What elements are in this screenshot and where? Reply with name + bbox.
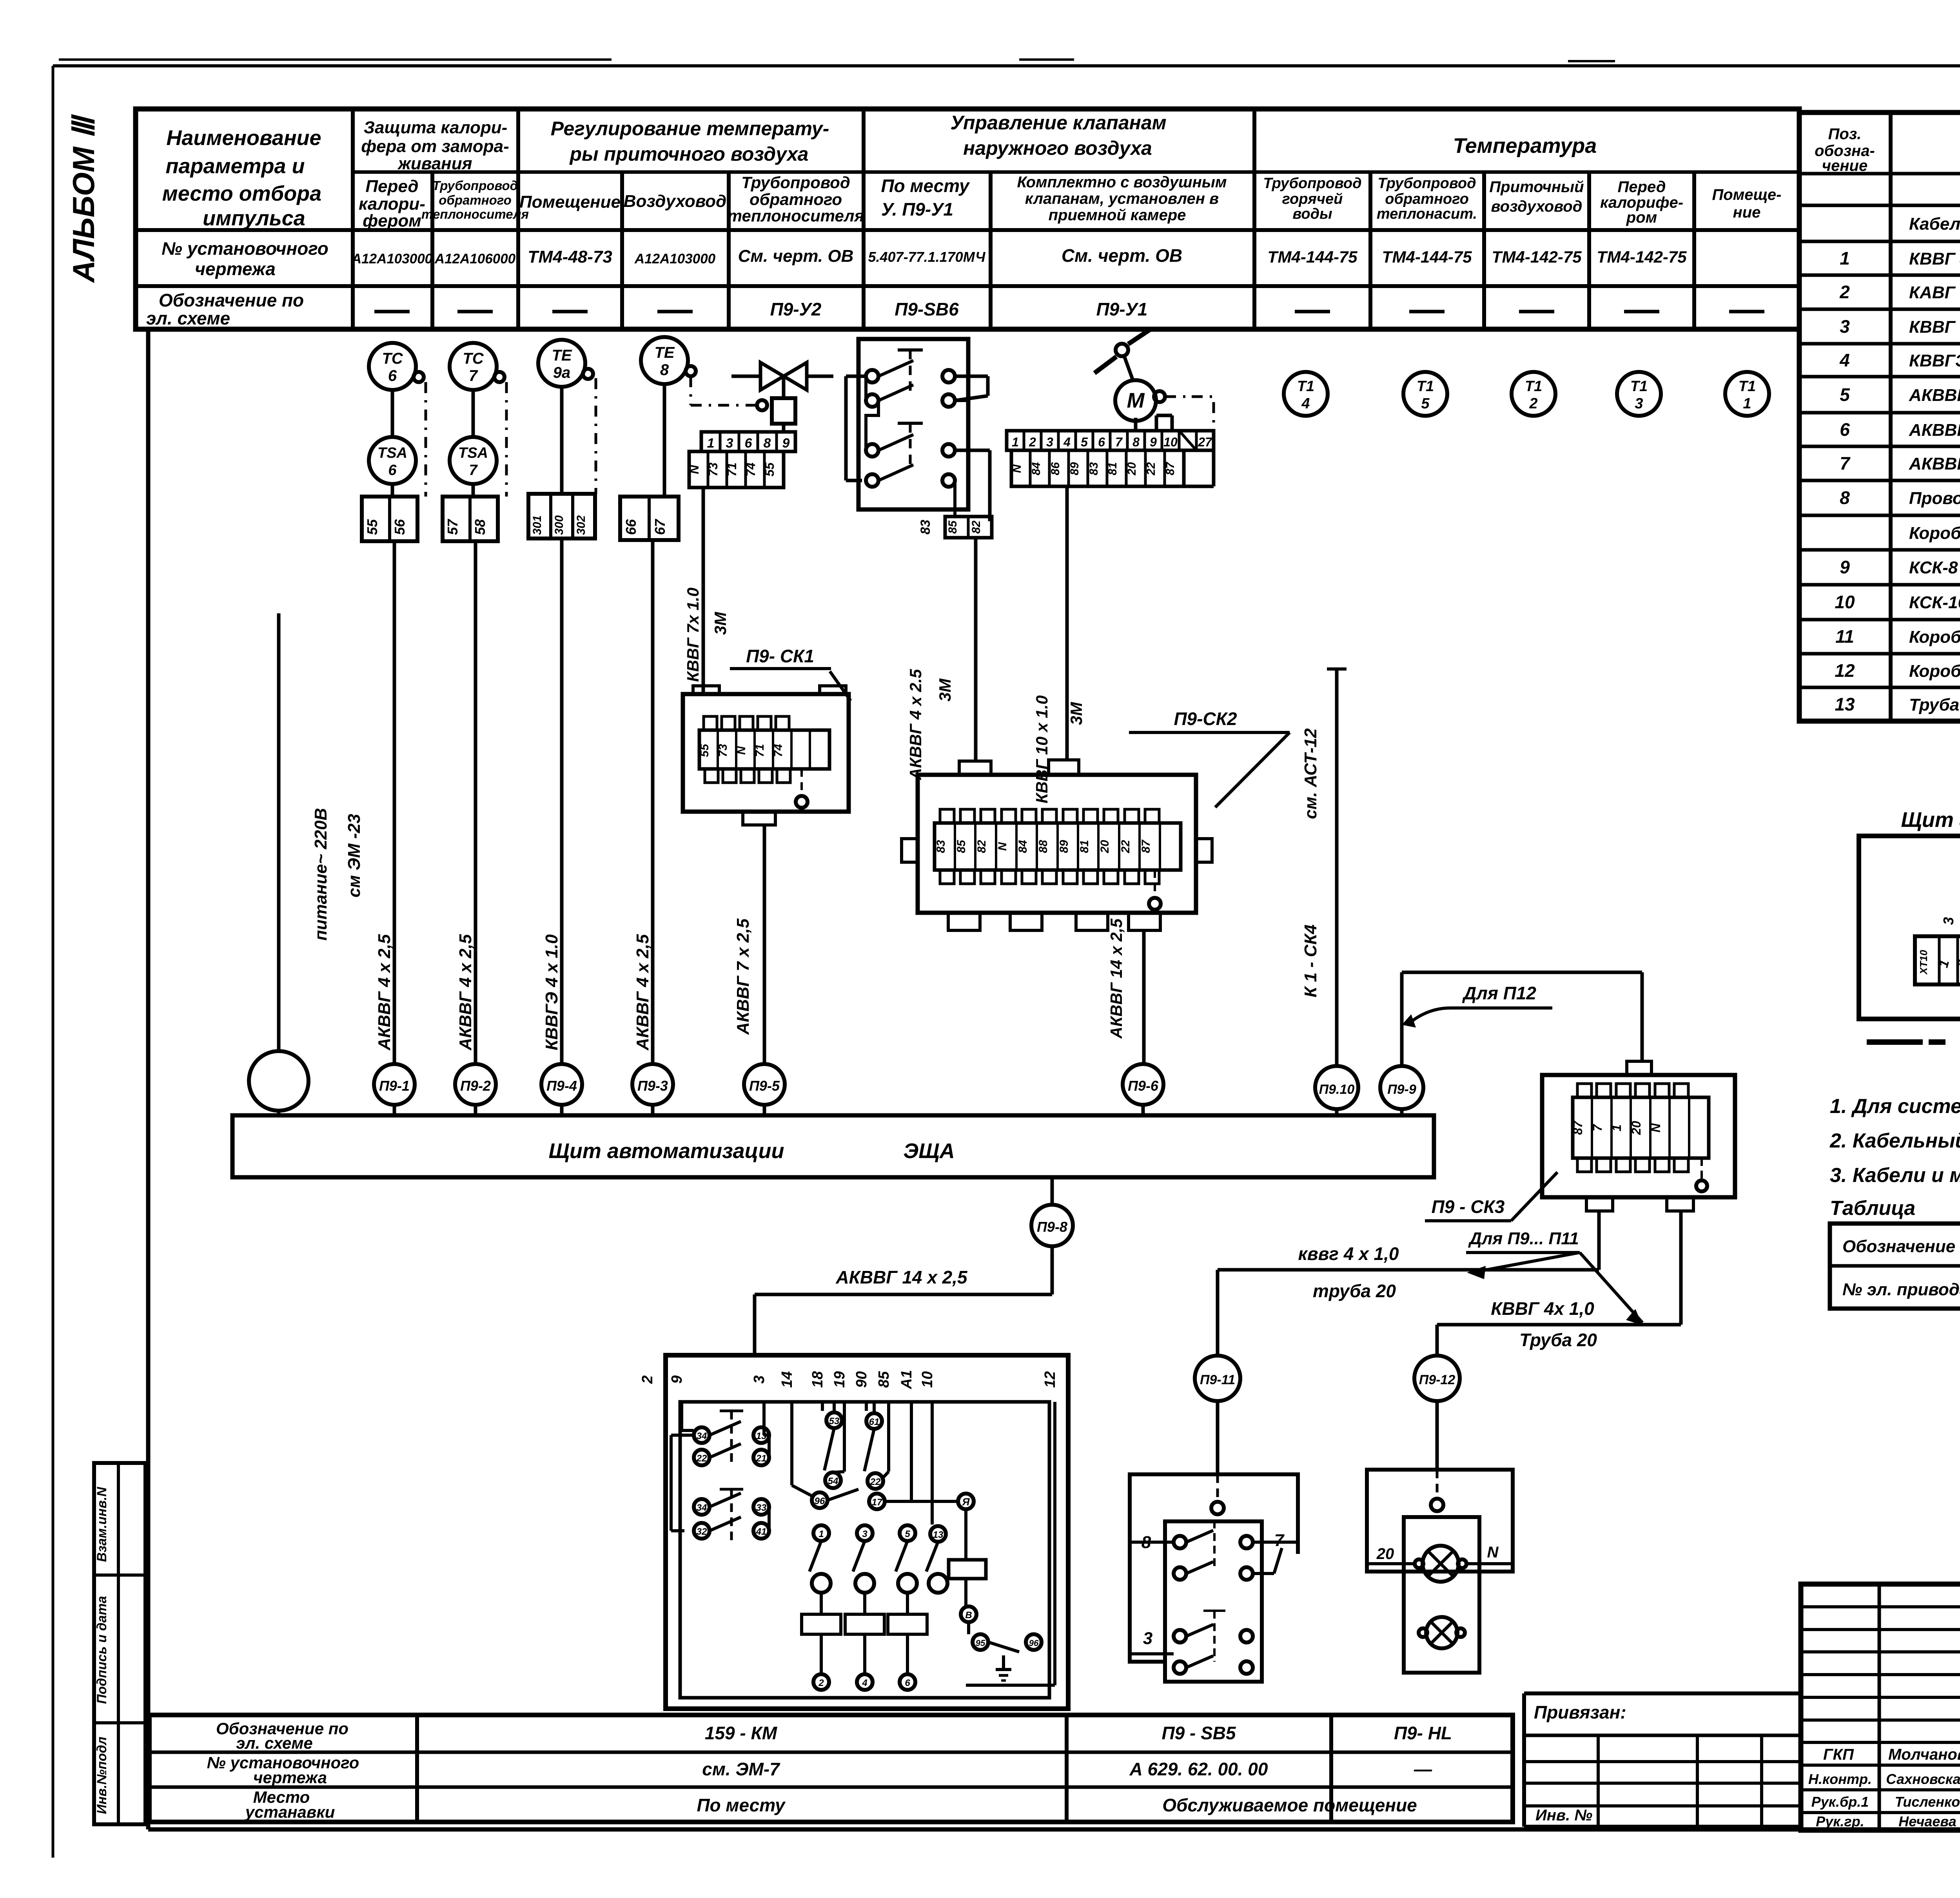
svg-text:58: 58: [472, 519, 488, 535]
svg-text:3М: 3М: [936, 678, 954, 702]
svg-text:14: 14: [779, 1371, 795, 1388]
svg-text:53: 53: [829, 1416, 840, 1427]
svg-text:ТSА: ТSА: [458, 445, 488, 461]
middle row contacts: [812, 1492, 828, 1508]
svg-text:27: 27: [1198, 435, 1213, 449]
valve: [731, 375, 760, 378]
svg-text:8: 8: [1132, 435, 1140, 449]
svg-text:N: N: [735, 746, 748, 755]
svg-text:АКВВГ 4 х 2,5: АКВВГ 4 х 2,5: [1909, 386, 1960, 405]
svg-text:4: 4: [862, 1678, 867, 1688]
svg-text:19: 19: [831, 1371, 848, 1388]
svg-text:АКВВГ 4 х 2.5: АКВВГ 4 х 2.5: [906, 669, 925, 780]
svg-text:3: 3: [1635, 395, 1643, 412]
SK2 bottom tab: [948, 913, 980, 930]
svg-text:56: 56: [392, 519, 408, 535]
svg-text:3: 3: [1143, 1629, 1152, 1648]
lamp HL2: [1426, 1617, 1457, 1648]
svg-text:13: 13: [756, 1431, 767, 1441]
wire 90: [865, 1402, 868, 1411]
svg-text:ЭЩА: ЭЩА: [903, 1139, 955, 1163]
outer top border: [53, 64, 1960, 67]
svg-text:№ эл. привода системы по ЭМ: № эл. привода системы по ЭМ-22: [1842, 1280, 1960, 1299]
sensor TE8: [641, 337, 688, 384]
svg-text:—: —: [1414, 1759, 1432, 1779]
svg-text:22: 22: [696, 1453, 707, 1464]
svg-text:№ установочного: № установочного: [162, 238, 328, 259]
svg-text:Инв.№подл: Инв.№подл: [94, 1737, 109, 1814]
svg-text:ТМ4-142-75: ТМ4-142-75: [1492, 248, 1582, 266]
svg-text:Регулирование температу-: Регулирование температу-: [551, 118, 829, 140]
svg-text:N: N: [996, 842, 1009, 851]
svg-text:3М: 3М: [711, 612, 730, 635]
svg-text:3: 3: [726, 436, 733, 451]
SchUS panel box: [1859, 836, 1960, 1019]
svg-text:Молчанов: Молчанов: [1888, 1746, 1960, 1763]
bottom frame: [148, 1827, 1960, 1832]
svg-text:Воздуховод: Воздуховод: [624, 192, 727, 211]
svg-text:АКВВГ 14 х 2,5: АКВВГ 14 х 2,5: [1909, 454, 1960, 473]
SK2 bottom tab: [1076, 913, 1108, 930]
feed circle: [249, 1051, 309, 1111]
svg-text:55: 55: [364, 519, 380, 535]
svg-text:12: 12: [1835, 660, 1855, 681]
stub8: [1171, 415, 1174, 431]
svg-text:13: 13: [933, 1530, 944, 1540]
svg-text:параметра и: параметра и: [165, 154, 305, 178]
svg-text:2: 2: [639, 1375, 656, 1384]
svg-text:96: 96: [1029, 1638, 1039, 1648]
svg-text:3: 3: [1940, 917, 1956, 925]
svg-text:8: 8: [660, 361, 669, 379]
svg-text:Приточный: Приточный: [1489, 178, 1584, 196]
sensor TSA6: [369, 437, 416, 484]
svg-text:см. АСТ-12: см. АСТ-12: [1301, 728, 1320, 819]
svg-text:П9-4: П9-4: [546, 1078, 577, 1094]
svg-text:П9-9: П9-9: [1387, 1082, 1416, 1097]
svg-text:П9 - SВ5: П9 - SВ5: [1161, 1723, 1236, 1743]
svg-text:КВВГ 7х 1.0: КВВГ 7х 1.0: [684, 587, 702, 682]
svg-text:П9-8: П9-8: [1037, 1219, 1067, 1235]
svg-text:81: 81: [1106, 462, 1119, 475]
svg-text:живания: живания: [397, 154, 472, 173]
svg-text:N: N: [1487, 1544, 1499, 1561]
svg-text:N: N: [687, 465, 701, 474]
svg-text:87: 87: [1571, 1120, 1585, 1135]
svg-text:301: 301: [531, 515, 544, 535]
svg-text:20: 20: [1125, 462, 1138, 476]
wire M to strip: [1134, 418, 1138, 431]
svg-text:наружного воздуха: наружного воздуха: [963, 137, 1152, 159]
svg-text:АЛЬБОМ Ⅲ: АЛЬБОМ Ⅲ: [66, 114, 101, 283]
svg-text:66: 66: [623, 519, 639, 535]
svg-text:Трубопровод: Трубопровод: [432, 178, 518, 193]
terminal box 66/67: [620, 497, 679, 540]
junction box P9-SK3: [1542, 1075, 1735, 1197]
circle П9-3: [632, 1064, 673, 1105]
left group bus: [671, 1434, 693, 1437]
svg-text:3: 3: [1046, 435, 1053, 449]
circle P9-8: [1051, 1177, 1054, 1205]
svg-text:89: 89: [1058, 840, 1071, 853]
header table grid: [136, 109, 1799, 329]
svg-text:П9-11: П9-11: [1200, 1372, 1235, 1387]
85/82 terminal box: [953, 480, 956, 517]
svg-text:Помеще-: Помеще-: [1712, 186, 1781, 203]
svg-text:Кабель ГОСТ 1508 -78*Е: Кабель ГОСТ 1508 -78*Е: [1909, 214, 1960, 234]
relay box P9-U1: [858, 339, 968, 509]
svg-text:13: 13: [1835, 694, 1855, 714]
svg-text:АКВВГ 14 х 2,5: АКВВГ 14 х 2,5: [835, 1267, 968, 1287]
svg-text:34: 34: [697, 1503, 707, 1513]
motor M: [1115, 380, 1156, 421]
wire TSA7-box: [472, 484, 475, 497]
wire TC7-TSA7: [472, 390, 475, 437]
svg-text:7: 7: [469, 462, 478, 479]
svg-text:9а: 9а: [553, 364, 571, 381]
capillary TE9a: [595, 378, 597, 494]
svg-text:КВВГ 10 х 1,0: КВВГ 10 х 1,0: [1909, 317, 1960, 337]
svg-text:9: 9: [669, 1375, 685, 1383]
wire 14: [790, 1402, 793, 1485]
svg-text:ТС: ТС: [463, 350, 484, 367]
svg-text:Рук.гр.: Рук.гр.: [1816, 1813, 1864, 1829]
damper blade b: [1128, 328, 1152, 344]
svg-text:воздуховод: воздуховод: [1491, 198, 1583, 215]
circle P9-11: [1216, 1270, 1220, 1356]
svg-text:Трубопровод: Трубопровод: [741, 173, 850, 192]
svg-text:4: 4: [1063, 435, 1071, 449]
relay outer wiring: [846, 375, 866, 378]
wire TSA6-box: [391, 484, 394, 497]
small table: [1524, 1760, 1801, 1763]
junction box P9-SK2: [918, 775, 1196, 913]
svg-text:ТЕ: ТЕ: [654, 344, 675, 361]
svg-text:устанавки: устанавки: [245, 1803, 335, 1821]
feed cable ~220V: [277, 613, 281, 1050]
svg-text:труба 20: труба 20: [1313, 1281, 1396, 1301]
wire 10: [931, 1402, 934, 1525]
capillary TC7: [505, 382, 508, 497]
table sistem: [1830, 1224, 1960, 1309]
wire KVVG to P9-12: [1437, 1323, 1681, 1327]
svg-text:71: 71: [725, 462, 739, 477]
svg-text:74: 74: [744, 462, 758, 477]
svg-text:73: 73: [706, 462, 720, 477]
SK2 right tab: [1196, 839, 1212, 862]
svg-text:Защита калори-: Защита калори-: [364, 118, 508, 137]
svg-text:6: 6: [1840, 419, 1850, 440]
svg-text:Тисленко: Тисленко: [1895, 1794, 1960, 1810]
svg-text:Щит автоматизации: Щит автоматизации: [1901, 808, 1960, 832]
P9-11 inner switch box: [1165, 1521, 1262, 1682]
SK2 strip: [935, 823, 1181, 870]
wire 85: [887, 1402, 890, 1472]
cable list table grid: [1799, 112, 1960, 721]
svg-text:67: 67: [652, 518, 668, 535]
svg-text:34: 34: [697, 1431, 707, 1441]
svg-text:87: 87: [1140, 839, 1152, 853]
svg-text:Трубопровод: Трубопровод: [1263, 175, 1361, 192]
pendant SK2: [1154, 870, 1156, 897]
svg-text:См. черт. ОВ: См. черт. ОВ: [738, 247, 854, 266]
svg-text:ТМ4-144-75: ТМ4-144-75: [1382, 248, 1472, 266]
svg-text:3: 3: [1840, 316, 1850, 337]
svg-text:приемной камере: приемной камере: [1049, 207, 1186, 224]
svg-text:84: 84: [1016, 840, 1029, 853]
circle П9-5: [744, 1064, 785, 1105]
svg-text:1: 1: [1743, 395, 1751, 412]
svg-text:А12А103000: А12А103000: [634, 251, 716, 266]
sensor T1/4: [1284, 372, 1328, 416]
dash link motor: [1165, 395, 1192, 398]
svg-text:обратного: обратного: [439, 193, 511, 207]
svg-text:КВВГ 10 х 1.0: КВВГ 10 х 1.0: [1033, 695, 1051, 803]
damper blade a: [1094, 357, 1116, 373]
circle P9.10: [1315, 1066, 1358, 1109]
svg-text:7: 7: [1115, 435, 1123, 449]
P9-12 outer box: [1367, 1470, 1513, 1572]
terminal box 55/56: [362, 497, 417, 541]
svg-text:ТSА: ТSА: [377, 445, 407, 461]
svg-text:В: В: [965, 1610, 972, 1621]
svg-text:17: 17: [872, 1497, 883, 1508]
svg-text:Коробка проходная КПЛ20У1, Т: Коробка проходная КПЛ20У1, ТУ36-1739-82: [1909, 662, 1960, 681]
svg-text:1: 1: [818, 1529, 824, 1539]
svg-text:Труба 20: Труба 20: [1519, 1330, 1597, 1350]
svg-text:П9.10: П9.10: [1319, 1082, 1355, 1097]
svg-text:эл. схеме: эл. схеме: [146, 308, 230, 328]
svg-text:М: М: [1127, 389, 1145, 412]
svg-text:Температура: Температура: [1453, 134, 1597, 158]
svg-text:5: 5: [1840, 384, 1850, 405]
svg-text:П9- СК1: П9- СК1: [746, 646, 814, 666]
solenoid box: [782, 376, 786, 398]
motor side circle: [1154, 391, 1165, 402]
svg-text:159 - КМ: 159 - КМ: [705, 1723, 778, 1743]
svg-text:П9-СК2: П9-СК2: [1174, 709, 1237, 729]
svg-text:См. черт. ОВ: См. черт. ОВ: [1062, 245, 1182, 266]
svg-text:калори-: калори-: [359, 194, 425, 214]
svg-text:3. Кабели и материалы уч: 3. Кабели и материалы учтены для 4: [1830, 1164, 1960, 1187]
SK1 bottom tab: [743, 812, 775, 825]
svg-text:А 629. 62. 00. 00: А 629. 62. 00. 00: [1129, 1759, 1268, 1779]
svg-text:П9- НL: П9- НL: [1394, 1723, 1452, 1743]
P9-11 outer box: [1130, 1474, 1298, 1662]
svg-text:33: 33: [756, 1503, 767, 1513]
pendant SK1: [800, 769, 803, 796]
svg-text:6: 6: [388, 462, 397, 479]
wire 12: [1053, 1402, 1056, 1685]
circle P9-9: [1380, 1066, 1423, 1109]
svg-text:N: N: [1649, 1123, 1663, 1133]
svg-text:22: 22: [1145, 462, 1158, 476]
svg-text:ТМ4-144-75: ТМ4-144-75: [1267, 248, 1357, 266]
svg-text:2: 2: [818, 1678, 824, 1688]
cable relay to SK2: [974, 538, 978, 761]
svg-text:5.407-77.1.170МЧ: 5.407-77.1.170МЧ: [868, 249, 986, 265]
svg-text:КВВГ 4 х 1,0: КВВГ 4 х 1,0: [1909, 249, 1960, 268]
svg-text:10: 10: [919, 1371, 936, 1388]
capillary TE8 to solenoid: [690, 376, 692, 405]
wire 9: [680, 1402, 683, 1430]
svg-text:2: 2: [1029, 435, 1036, 449]
svg-text:N: N: [1011, 464, 1024, 473]
svg-text:7: 7: [1590, 1124, 1604, 1131]
strip2 right bottom: [1183, 485, 1214, 488]
svg-text:1: 1: [1610, 1124, 1624, 1131]
svg-text:2: 2: [1839, 282, 1850, 302]
svg-text:Трубопровод: Трубопровод: [1377, 175, 1476, 192]
svg-text:теплоносителя: теплоносителя: [728, 207, 864, 225]
svg-text:К 1 - СК4: К 1 - СК4: [1301, 925, 1320, 997]
svg-text:8: 8: [764, 436, 771, 451]
svg-text:воды: воды: [1292, 206, 1332, 222]
svg-text:6: 6: [905, 1678, 910, 1688]
svg-text:ХТ10: ХТ10: [1918, 950, 1929, 975]
svg-text:ТЕ: ТЕ: [552, 347, 572, 364]
svg-text:18: 18: [809, 1371, 826, 1388]
svg-text:Подпись и дата: Подпись и дата: [94, 1596, 109, 1704]
svg-text:41: 41: [756, 1526, 767, 1537]
dash row: [1901, 240, 1960, 243]
svg-text:2. Кабельный журнал см. А: 2. Кабельный журнал см. АСТ - 19: [1829, 1129, 1960, 1152]
sensor T1/3: [1617, 372, 1661, 416]
svg-text:73: 73: [717, 744, 730, 757]
wire TC6-TSA6: [391, 390, 394, 437]
svg-text:Таблица: Таблица: [1830, 1197, 1915, 1220]
svg-text:Т1: Т1: [1739, 378, 1756, 395]
svg-text:5: 5: [1081, 435, 1088, 449]
svg-text:Инв. №: Инв. №: [1535, 1807, 1592, 1824]
svg-text:ТМ4-142-75: ТМ4-142-75: [1597, 248, 1687, 266]
svg-text:300: 300: [553, 515, 566, 535]
svg-text:А1: А1: [898, 1370, 915, 1390]
svg-text:обратного: обратного: [750, 190, 842, 208]
svg-text:Труба водогазопроводная 20 Г: Труба водогазопроводная 20 ГОСТ 3262-75*: [1909, 695, 1960, 714]
svg-text:КВВГ 4х 1,0: КВВГ 4х 1,0: [1491, 1298, 1594, 1319]
svg-text:7: 7: [1274, 1531, 1285, 1550]
svg-text:55: 55: [698, 743, 711, 757]
svg-text:ТС: ТС: [382, 350, 403, 367]
svg-text:кввг 4 х 1,0: кввг 4 х 1,0: [1298, 1244, 1399, 1264]
svg-text:см ЭМ -23: см ЭМ -23: [345, 814, 364, 897]
contactor box inner: [680, 1402, 1049, 1698]
svg-text:теплонасит.: теплонасит.: [1377, 206, 1477, 222]
terminal box 57/58: [443, 497, 498, 541]
svg-text:5: 5: [1421, 395, 1430, 412]
wire TE9a-box: [560, 387, 564, 494]
title block: [1801, 1584, 1960, 1830]
left vertical strip: [94, 1463, 145, 1824]
svg-text:П9-6: П9-6: [1128, 1078, 1159, 1094]
wire P9-9 to SK3: [1400, 972, 1404, 1066]
svg-text:5: 5: [905, 1529, 910, 1539]
svg-text:Провод ПВ1 сеч. 1.0 ГОСТ 632: Провод ПВ1 сеч. 1.0 ГОСТ 6323-79 *Е: [1909, 489, 1960, 508]
svg-text:Обслуживаемое помещение: Обслуживаемое помещение: [1162, 1795, 1417, 1815]
cable P9-3: [651, 540, 655, 1063]
svg-text:Т1: Т1: [1297, 378, 1314, 395]
svg-text:83: 83: [935, 840, 947, 853]
svg-text:12: 12: [1042, 1371, 1058, 1388]
svg-text:Нечаева: Нечаева: [1898, 1813, 1956, 1829]
terminal strip XT10: [1915, 936, 1960, 984]
svg-text:3: 3: [862, 1529, 867, 1539]
cable strip1 to SK1: [702, 488, 705, 694]
left frame: [146, 329, 151, 1829]
svg-text:1: 1: [1840, 248, 1850, 268]
outer top border second line: [59, 58, 612, 61]
terminal strip 1 (1 3 6 8 9 / N 73 71 74 55): [701, 432, 795, 451]
svg-text:4: 4: [1301, 395, 1310, 412]
svg-text:Т1: Т1: [1525, 378, 1542, 395]
circle П9-2: [455, 1064, 496, 1105]
svg-text:4: 4: [1839, 350, 1850, 370]
strip2 right edge: [1212, 450, 1216, 486]
svg-text:84: 84: [1030, 462, 1043, 475]
svg-text:Н.контр.: Н.контр.: [1808, 1771, 1872, 1787]
svg-text:10: 10: [1835, 592, 1855, 612]
svg-text:КСК-16: КСК-16: [1909, 593, 1960, 612]
svg-text:Я: Я: [962, 1496, 970, 1508]
svg-text:85: 85: [955, 839, 968, 853]
svg-text:Коробка соединительная ТУ3: Коробка соединительная ТУ36. 1753-75: [1909, 524, 1960, 543]
slash cell: [1179, 431, 1196, 450]
cable strip2 to SK2: [1065, 486, 1069, 760]
svg-text:П9-У2: П9-У2: [770, 299, 822, 319]
svg-text:10: 10: [1163, 435, 1178, 449]
lamp HL1: [1423, 1546, 1459, 1582]
svg-text:Сахновская: Сахновская: [1886, 1771, 1960, 1787]
svg-text:9: 9: [782, 436, 790, 451]
shield automation ESchA box: [232, 1115, 1434, 1177]
svg-text:АКВВГ 4 х 2,5: АКВВГ 4 х 2,5: [375, 934, 394, 1051]
svg-text:1: 1: [1012, 435, 1019, 449]
sensor TSA7: [450, 437, 497, 484]
svg-text:32: 32: [697, 1526, 707, 1537]
svg-text:чение: чение: [1822, 157, 1867, 174]
svg-text:клапанам, установлен в: клапанам, установлен в: [1025, 190, 1219, 207]
svg-text:Помещение: Помещение: [519, 192, 621, 212]
svg-text:П9-5: П9-5: [749, 1078, 780, 1094]
wire TE8-box: [663, 384, 666, 497]
contactor box 159-KM outer: [666, 1355, 1068, 1709]
svg-text:Рук.бр.1: Рук.бр.1: [1811, 1794, 1869, 1810]
svg-text:85: 85: [876, 1371, 892, 1388]
svg-text:П9-SВ6: П9-SВ6: [895, 299, 959, 319]
svg-text:3М: 3М: [1067, 702, 1085, 725]
sensor T1/1: [1725, 372, 1769, 416]
relay coil: [949, 1560, 986, 1579]
svg-text:2: 2: [1529, 395, 1537, 412]
svg-text:1. Для систем П10... П12: 1. Для систем П10... П12 схемы аналогичн…: [1830, 1095, 1960, 1118]
sensor TC7: [450, 343, 497, 390]
svg-text:КАВГ 7 х 1.0: КАВГ 7 х 1.0: [1909, 283, 1960, 302]
sensor T1/2: [1512, 372, 1555, 416]
privyazan box: [1524, 1691, 1801, 1695]
svg-text:см. ЭМ-7: см. ЭМ-7: [702, 1759, 780, 1779]
svg-text:Перед: Перед: [1618, 178, 1666, 196]
sensor T1/5: [1403, 372, 1447, 416]
circle П9-6: [1123, 1064, 1163, 1105]
svg-text:ры приточного воздуха: ры приточного воздуха: [569, 143, 808, 165]
legend line: [1867, 1039, 1923, 1045]
svg-text:П9-2: П9-2: [460, 1078, 491, 1094]
circle P9-12: [1436, 1325, 1439, 1356]
svg-text:11: 11: [1835, 626, 1854, 647]
svg-text:89: 89: [1068, 462, 1081, 475]
svg-text:61: 61: [869, 1417, 880, 1427]
